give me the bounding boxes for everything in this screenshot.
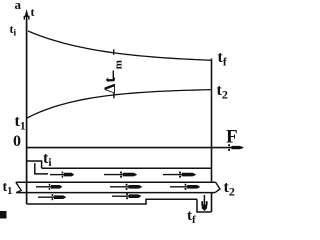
horizontal F-axis [27, 147, 234, 149]
flow arrows channel 2 (inner tube) [36, 184, 62, 190]
outlet outer wall [197, 199, 212, 212]
svg-text:0: 0 [13, 133, 21, 150]
upper curve t_i -> t_f [28, 31, 212, 60]
outer tube top wall W1 [42, 167, 212, 169]
inlet elbow outer wall [27, 161, 42, 168]
svg-text:m: m [112, 60, 124, 69]
tick on lower curve [113, 93, 115, 98]
svg-text:F: F [226, 127, 238, 148]
svg-text:a: a [15, 0, 22, 12]
svg-text:t: t [31, 5, 35, 19]
dimension stroke of delta-t label [112, 71, 114, 81]
inlet elbow inner wall [35, 163, 48, 174]
left pipe-break chevron [16, 182, 21, 192]
right vertical line (upper part, through graph to exchanger) [211, 59, 213, 182]
flow arrows channel 3 [38, 194, 66, 200]
lower curve t_1 -> t_2 [27, 90, 212, 118]
outlet down arrow [201, 195, 207, 211]
flow arrows channel 1 [50, 172, 74, 178]
inner tube bottom wall W4 [16, 192, 215, 194]
inner tube top wall W3 [16, 181, 216, 183]
t-axis arrowhead [25, 9, 29, 17]
vertical t-axis (continues down as left wall of exchanger) [26, 14, 28, 204]
right pipe-break chevron [215, 182, 220, 192]
svg-text:Δt: Δt [102, 76, 119, 93]
edge artifact bottom-left [0, 211, 7, 219]
F-axis arrowhead [228, 144, 230, 146]
right vertical line (lower part, to outlet) [211, 193, 213, 212]
bottom shell wall (stepped) [27, 199, 197, 204]
tick on upper curve [113, 49, 115, 54]
